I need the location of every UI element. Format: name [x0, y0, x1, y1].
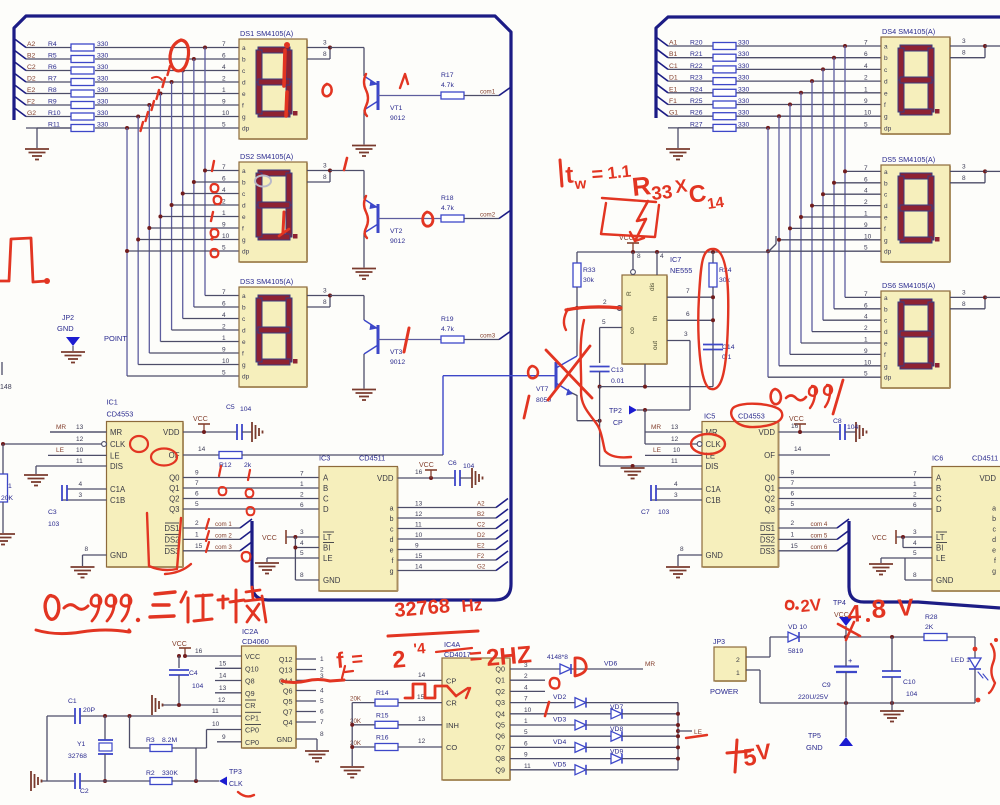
svg-text:1: 1 [195, 531, 199, 538]
svg-text:15: 15 [417, 694, 425, 701]
svg-text:330: 330 [738, 110, 750, 117]
svg-text:14: 14 [198, 446, 206, 453]
svg-text:330: 330 [738, 98, 750, 105]
svg-text:4: 4 [674, 481, 678, 488]
svg-text:4: 4 [864, 63, 868, 70]
svg-text:330: 330 [97, 53, 109, 60]
svg-text:3: 3 [962, 163, 966, 170]
svg-text:g: g [242, 237, 246, 244]
svg-text:104: 104 [240, 406, 252, 413]
svg-text:th: th [652, 315, 659, 321]
svg-text:2HZ: 2HZ [485, 641, 533, 672]
svg-text:6: 6 [222, 176, 226, 183]
svg-text:R15: R15 [376, 712, 389, 719]
svg-text:R2: R2 [146, 770, 155, 777]
svg-text:R5: R5 [48, 53, 57, 60]
svg-text:C5: C5 [226, 404, 235, 411]
svg-text:VCC: VCC [172, 641, 187, 648]
svg-text:IC6: IC6 [932, 454, 943, 463]
svg-text:VD7: VD7 [610, 704, 623, 711]
svg-text:D2: D2 [477, 532, 485, 539]
svg-text:com 6: com 6 [811, 544, 828, 551]
svg-text:V: V [755, 739, 773, 765]
svg-text:b: b [242, 57, 246, 64]
svg-text:3: 3 [674, 492, 678, 499]
svg-text:8: 8 [962, 175, 966, 182]
svg-text:10: 10 [222, 233, 230, 240]
svg-text:8: 8 [962, 50, 966, 57]
svg-text:VDD: VDD [980, 474, 997, 483]
svg-text:BI: BI [936, 544, 943, 553]
svg-text:8.2M: 8.2M [162, 737, 177, 744]
svg-text:9: 9 [524, 752, 528, 759]
svg-text:C1B: C1B [706, 496, 721, 505]
svg-text:5: 5 [602, 319, 606, 326]
svg-text:e: e [884, 90, 888, 97]
svg-text:20K: 20K [350, 696, 362, 703]
svg-text:f: f [884, 102, 886, 109]
svg-text:C10: C10 [903, 679, 916, 686]
svg-text:LE: LE [56, 447, 65, 454]
svg-text:b: b [242, 180, 246, 187]
svg-text:VD8: VD8 [610, 726, 623, 733]
svg-text:20P: 20P [83, 707, 96, 714]
svg-text:e: e [242, 214, 246, 221]
svg-text:Hz: Hz [461, 595, 483, 616]
svg-text:D2: D2 [27, 76, 36, 83]
svg-text:b: b [884, 306, 888, 313]
svg-text:TP4: TP4 [833, 600, 846, 607]
svg-text:C14: C14 [722, 344, 735, 351]
svg-text:dp: dp [884, 125, 892, 132]
svg-text:10: 10 [864, 359, 872, 366]
svg-text:c: c [993, 527, 997, 534]
svg-text:11: 11 [524, 763, 531, 770]
svg-text:A: A [323, 474, 329, 483]
svg-text:7: 7 [864, 165, 868, 172]
svg-text:DIS: DIS [110, 462, 123, 471]
svg-text:com3: com3 [480, 333, 496, 340]
svg-text:9: 9 [222, 734, 226, 741]
svg-text:2: 2 [913, 492, 917, 499]
svg-text:2V: 2V [800, 595, 823, 616]
svg-text:e: e [390, 548, 394, 555]
svg-text:d: d [884, 79, 888, 86]
svg-text:w: w [573, 175, 587, 193]
svg-text:TP3: TP3 [229, 769, 242, 776]
svg-text:9012: 9012 [390, 359, 405, 366]
svg-text:com 2: com 2 [215, 532, 232, 539]
svg-text:JP3: JP3 [713, 639, 725, 646]
svg-text:7: 7 [222, 289, 226, 296]
svg-text:CR: CR [245, 701, 255, 710]
svg-text:IC5: IC5 [704, 412, 715, 421]
svg-text:3: 3 [323, 163, 327, 170]
svg-text:10: 10 [212, 721, 220, 728]
svg-text:5: 5 [300, 550, 304, 557]
svg-text:POINT: POINT [104, 334, 127, 343]
svg-text:C: C [323, 495, 329, 504]
svg-text:com1: com1 [480, 89, 496, 96]
svg-text:4.7k: 4.7k [441, 205, 454, 212]
svg-text:5819: 5819 [788, 648, 803, 655]
svg-text:C1B: C1B [110, 496, 125, 505]
svg-text:+: + [848, 656, 853, 665]
svg-text:VCC: VCC [789, 416, 804, 423]
svg-text:7: 7 [320, 719, 324, 726]
svg-text:1: 1 [864, 211, 868, 218]
svg-text:3: 3 [79, 492, 83, 499]
svg-text:9: 9 [222, 222, 226, 229]
svg-text:LE: LE [936, 554, 946, 563]
svg-text:1: 1 [864, 86, 868, 93]
svg-text:10: 10 [76, 447, 84, 454]
svg-text:Q1: Q1 [169, 484, 179, 493]
svg-text:2k: 2k [244, 462, 252, 469]
svg-text:com2: com2 [480, 212, 496, 219]
svg-text:R28: R28 [925, 614, 938, 621]
svg-text:5: 5 [195, 501, 199, 508]
svg-text:b: b [884, 180, 888, 187]
svg-text:16: 16 [415, 469, 423, 476]
svg-text:d: d [884, 329, 888, 336]
svg-text:330K: 330K [162, 770, 178, 777]
svg-text:out: out [652, 341, 659, 350]
svg-text:R25: R25 [690, 98, 703, 105]
svg-text:15: 15 [219, 660, 227, 667]
svg-text:JP2: JP2 [62, 315, 74, 322]
svg-text:com 1: com 1 [215, 521, 232, 528]
svg-text:5: 5 [864, 245, 868, 252]
svg-text:14: 14 [219, 673, 227, 680]
svg-text:G2: G2 [477, 564, 486, 571]
svg-text:6: 6 [222, 301, 226, 308]
svg-text:A2: A2 [27, 41, 36, 48]
svg-text:f: f [884, 226, 886, 233]
svg-text:B2: B2 [477, 511, 485, 518]
svg-text:D: D [323, 505, 329, 514]
svg-text:f: f [884, 352, 886, 359]
svg-text:3: 3 [962, 289, 966, 296]
svg-text:INH: INH [446, 721, 459, 730]
svg-text:VD3: VD3 [553, 717, 566, 724]
svg-text:GND: GND [277, 735, 293, 744]
svg-text:com 4: com 4 [811, 521, 828, 528]
svg-text:CO: CO [446, 743, 457, 752]
svg-text:a: a [884, 44, 888, 51]
svg-text:5: 5 [913, 550, 917, 557]
svg-text:IC4A: IC4A [444, 640, 460, 649]
svg-text:Q6: Q6 [495, 732, 505, 741]
svg-text:4: 4 [864, 314, 868, 321]
svg-text:R22: R22 [690, 63, 703, 70]
svg-text:330: 330 [738, 121, 750, 128]
svg-text:30k: 30k [719, 277, 731, 284]
svg-text:D: D [936, 505, 942, 514]
svg-text:Q0: Q0 [169, 474, 180, 483]
svg-text:MR: MR [56, 424, 66, 431]
svg-text:DIS: DIS [706, 462, 719, 471]
svg-text:g: g [884, 114, 888, 121]
svg-text:9: 9 [864, 222, 868, 229]
svg-text:R8: R8 [48, 87, 57, 94]
svg-text:5: 5 [864, 371, 868, 378]
svg-text:CP: CP [446, 676, 456, 685]
svg-text:g: g [242, 114, 246, 121]
svg-text:3: 3 [300, 529, 304, 536]
svg-text:VT2: VT2 [390, 228, 403, 235]
svg-text:15: 15 [195, 543, 203, 550]
svg-text:LE: LE [110, 452, 120, 461]
svg-text:3: 3 [323, 40, 327, 47]
svg-text:330: 330 [738, 40, 750, 47]
svg-text:R9: R9 [48, 99, 57, 106]
svg-text:6: 6 [222, 53, 226, 60]
svg-text:8: 8 [913, 572, 917, 579]
svg-text:g: g [884, 363, 888, 370]
svg-text:4: 4 [79, 481, 83, 488]
svg-text:C2: C2 [477, 522, 485, 529]
svg-text:4: 4 [864, 188, 868, 195]
svg-text:12: 12 [418, 738, 426, 745]
svg-text:g: g [884, 237, 888, 244]
svg-text:R20: R20 [690, 40, 703, 47]
svg-text:Y1: Y1 [77, 741, 86, 748]
svg-text:b: b [242, 305, 246, 312]
svg-text:e: e [242, 91, 246, 98]
svg-text:g: g [390, 569, 394, 576]
svg-text:12: 12 [415, 511, 423, 518]
svg-text:dp: dp [242, 126, 250, 133]
svg-text:4: 4 [320, 688, 324, 695]
svg-text:DS4 SM4105(A): DS4 SM4105(A) [882, 27, 935, 36]
svg-text:CLK: CLK [229, 781, 243, 788]
svg-text:D1: D1 [669, 75, 678, 82]
svg-text:1: 1 [8, 483, 12, 490]
svg-text:4: 4 [222, 187, 226, 194]
svg-text:LT: LT [323, 533, 332, 542]
svg-text:d: d [992, 537, 996, 544]
svg-text:6: 6 [791, 491, 795, 498]
svg-text:CP0: CP0 [245, 726, 259, 735]
svg-text:LT: LT [936, 533, 945, 542]
svg-text:Q2: Q2 [495, 687, 505, 696]
svg-text:4148*8: 4148*8 [547, 654, 568, 661]
svg-text:14: 14 [415, 564, 423, 571]
svg-text:1: 1 [222, 210, 226, 217]
svg-text:15: 15 [791, 543, 799, 550]
svg-text:7: 7 [195, 480, 199, 487]
svg-text:9: 9 [864, 348, 868, 355]
svg-text:com 3: com 3 [215, 544, 232, 551]
svg-text:R: R [626, 291, 633, 296]
svg-text:4.7k: 4.7k [441, 82, 454, 89]
svg-text:10: 10 [222, 358, 230, 365]
svg-text:2: 2 [222, 76, 226, 83]
svg-text:6: 6 [864, 51, 868, 58]
svg-text:E1: E1 [669, 86, 678, 93]
svg-text:VD6: VD6 [604, 661, 617, 668]
svg-text:CLK: CLK [110, 440, 126, 449]
svg-text:13: 13 [418, 716, 426, 723]
svg-text:dp: dp [884, 375, 892, 382]
svg-text:Q5: Q5 [495, 721, 505, 730]
svg-text:7: 7 [791, 480, 795, 487]
svg-text:4.7k: 4.7k [441, 326, 454, 333]
svg-text:103: 103 [658, 509, 670, 516]
svg-text:TP2: TP2 [609, 408, 622, 415]
svg-text:2: 2 [603, 299, 607, 306]
svg-text:IC7: IC7 [670, 255, 681, 264]
svg-text:VDD: VDD [759, 428, 776, 437]
svg-text:F2: F2 [477, 553, 485, 560]
svg-text:Q7: Q7 [495, 743, 505, 752]
svg-text:VCC: VCC [245, 652, 260, 661]
svg-text:C4: C4 [189, 670, 198, 677]
svg-text:C1A: C1A [110, 485, 126, 494]
svg-text:30k: 30k [583, 277, 595, 284]
svg-text:LED 1: LED 1 [951, 657, 970, 664]
svg-text:LE: LE [653, 447, 662, 454]
svg-text:16: 16 [195, 648, 203, 655]
svg-text:10: 10 [524, 707, 532, 714]
svg-text:2K: 2K [925, 624, 934, 631]
svg-text:CD4060: CD4060 [242, 637, 269, 646]
svg-text:10: 10 [673, 447, 681, 454]
svg-text:C2: C2 [27, 64, 36, 71]
svg-text:0.01: 0.01 [611, 378, 624, 385]
svg-text:Q5: Q5 [283, 697, 293, 706]
svg-text:8: 8 [680, 546, 684, 553]
svg-text:330: 330 [97, 41, 109, 48]
svg-text:Q12: Q12 [279, 655, 293, 664]
svg-text:8: 8 [637, 253, 641, 260]
svg-text:1: 1 [913, 481, 917, 488]
svg-text:9012: 9012 [390, 238, 405, 245]
svg-text:9: 9 [791, 470, 795, 477]
svg-text:5: 5 [222, 245, 226, 252]
svg-text:R18: R18 [441, 195, 454, 202]
svg-text:GND: GND [806, 743, 823, 752]
svg-text:2: 2 [391, 646, 407, 674]
svg-text:=: = [351, 648, 365, 671]
svg-text:CD4511: CD4511 [972, 454, 998, 463]
svg-text:8: 8 [871, 593, 887, 624]
svg-text:6: 6 [320, 709, 324, 716]
svg-text:B: B [936, 484, 941, 493]
svg-text:f: f [994, 558, 996, 565]
svg-text:1: 1 [300, 481, 304, 488]
svg-text:5: 5 [222, 122, 226, 129]
svg-text:330: 330 [97, 99, 109, 106]
svg-text:5: 5 [791, 501, 795, 508]
svg-text:d: d [242, 328, 246, 335]
svg-text:C8: C8 [833, 418, 842, 425]
svg-text:F1: F1 [669, 98, 677, 105]
svg-text:12: 12 [76, 436, 84, 443]
svg-text:Q4: Q4 [283, 718, 293, 727]
svg-text:C1: C1 [669, 63, 678, 70]
svg-text:7: 7 [222, 164, 226, 171]
svg-text:GND: GND [706, 551, 724, 560]
svg-text:13: 13 [671, 424, 679, 431]
svg-text:10: 10 [864, 110, 872, 117]
svg-text:11: 11 [76, 458, 83, 465]
svg-text:Q3: Q3 [495, 698, 505, 707]
svg-text:C2: C2 [80, 788, 89, 795]
svg-text:Q10: Q10 [245, 664, 259, 673]
svg-text:13: 13 [76, 424, 84, 431]
svg-text:A: A [936, 474, 942, 483]
svg-text:4: 4 [660, 253, 664, 260]
svg-text:CP: CP [613, 420, 623, 427]
svg-text:10: 10 [415, 532, 423, 539]
svg-text:C7: C7 [641, 509, 650, 516]
svg-text:C6: C6 [448, 460, 457, 467]
svg-text:DS5 SM4105(A): DS5 SM4105(A) [882, 155, 935, 164]
svg-text:e: e [884, 341, 888, 348]
svg-text:CLK: CLK [706, 440, 722, 449]
svg-text:4: 4 [222, 312, 226, 319]
svg-text:GND: GND [936, 576, 954, 585]
svg-text:R4: R4 [48, 41, 57, 48]
svg-text:8: 8 [323, 51, 327, 58]
svg-text:TP5: TP5 [808, 733, 821, 740]
svg-text:C1A: C1A [706, 485, 722, 494]
svg-text:f: f [242, 351, 244, 358]
svg-text:dp: dp [242, 374, 250, 381]
svg-text:12: 12 [218, 697, 226, 704]
svg-text:20K: 20K [1, 495, 14, 502]
svg-text:R19: R19 [441, 316, 454, 323]
svg-text:14: 14 [418, 672, 426, 679]
svg-text:2: 2 [864, 325, 868, 332]
svg-text:6: 6 [300, 502, 304, 509]
svg-text:VD5: VD5 [553, 761, 566, 768]
svg-text:32768: 32768 [68, 753, 87, 760]
svg-text:Q4: Q4 [495, 709, 505, 718]
svg-text:6: 6 [913, 502, 917, 509]
svg-text:R23: R23 [690, 75, 703, 82]
svg-text:1: 1 [320, 656, 324, 663]
svg-text:5: 5 [864, 121, 868, 128]
svg-text:R6: R6 [48, 64, 57, 71]
svg-text:CR: CR [446, 699, 457, 708]
svg-text:Q8: Q8 [495, 754, 505, 763]
svg-text:E2: E2 [27, 87, 36, 94]
svg-text:11: 11 [212, 708, 219, 715]
svg-text:4: 4 [913, 540, 917, 547]
svg-text:8: 8 [962, 301, 966, 308]
svg-text:6: 6 [686, 311, 690, 318]
svg-text:a: a [884, 169, 888, 176]
svg-text:220U/25V: 220U/25V [798, 694, 829, 701]
svg-text:d: d [242, 203, 246, 210]
svg-text:R3: R3 [146, 737, 155, 744]
svg-text:7: 7 [524, 696, 528, 703]
svg-text:a: a [992, 506, 996, 513]
svg-text:6: 6 [195, 491, 199, 498]
svg-text:d: d [884, 203, 888, 210]
svg-text:1: 1 [222, 87, 226, 94]
svg-text:Q6: Q6 [283, 687, 293, 696]
svg-text:a: a [242, 168, 246, 175]
svg-text:4: 4 [524, 684, 528, 691]
svg-text:104: 104 [847, 424, 859, 431]
svg-text:330: 330 [738, 86, 750, 93]
svg-text:R: R [630, 170, 652, 202]
svg-text:6: 6 [864, 176, 868, 183]
